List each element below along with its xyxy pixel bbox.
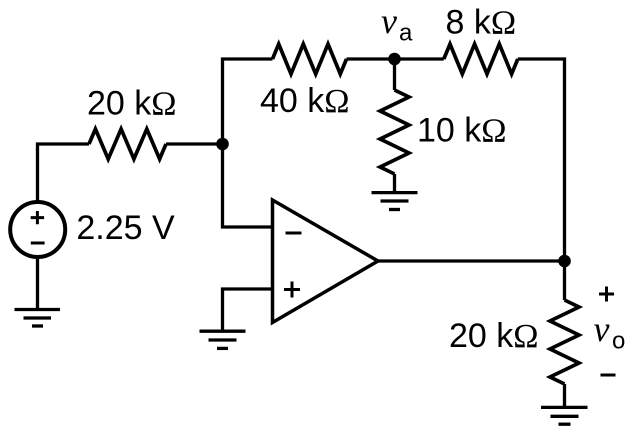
wire resistor 10k to ground — [393, 174, 396, 191]
op-amp minus input symbol — [286, 232, 302, 235]
resistor R3 8 kOhm — [444, 44, 518, 74]
svg-text:v: v — [594, 309, 610, 349]
svg-text:v: v — [381, 1, 397, 41]
output polarity plus sign — [599, 287, 614, 302]
wire op-amp plus input to ground — [223, 289, 273, 330]
wire resistor 20k load to ground — [563, 384, 566, 406]
svg-text:40 kΩ: 40 kΩ — [260, 82, 350, 120]
op-amp U1 — [273, 200, 379, 323]
wire resistor 20k to inverting node — [166, 142, 223, 145]
node va junction — [388, 53, 401, 66]
svg-text:8 kΩ: 8 kΩ — [446, 4, 517, 42]
wire resistor 8k to right corner down to output node — [518, 59, 565, 261]
wire source top to resistor 20k — [38, 144, 90, 201]
svg-text:a: a — [399, 20, 413, 47]
resistor R2 40 kOhm feedback — [273, 44, 347, 74]
ground below load resistor — [541, 407, 588, 424]
resistor R5 20 kOhm load — [550, 300, 579, 384]
svg-text:10 kΩ: 10 kΩ — [417, 112, 507, 150]
wire node va down to resistor 10k — [393, 59, 396, 90]
op-amp plus input symbol — [284, 282, 300, 298]
ground below 10k resistor — [372, 193, 418, 210]
wire output node down to resistor 20k load — [563, 261, 566, 300]
ground below source — [15, 310, 61, 327]
svg-text:2.25 V: 2.25 V — [76, 209, 175, 247]
svg-text:20 kΩ: 20 kΩ — [87, 85, 177, 123]
wire resistor 40k to node va — [347, 57, 444, 60]
resistor R1 20 kOhm input — [89, 129, 166, 159]
node output junction — [558, 255, 571, 268]
output polarity minus sign — [601, 374, 616, 377]
resistor R4 10 kOhm — [380, 90, 409, 174]
wire inverting node up to feedback rail — [223, 59, 273, 144]
svg-text:20 kΩ: 20 kΩ — [449, 317, 539, 355]
voltage source VS 2.25 V — [10, 202, 65, 257]
svg-text:o: o — [612, 328, 625, 355]
wire inverting node down to op-amp minus input — [223, 144, 273, 227]
wire source bottom to ground — [36, 258, 39, 308]
ground below op-amp plus input — [200, 331, 246, 348]
node inverting input junction — [216, 138, 229, 151]
wire op-amp output to output node — [378, 259, 565, 262]
